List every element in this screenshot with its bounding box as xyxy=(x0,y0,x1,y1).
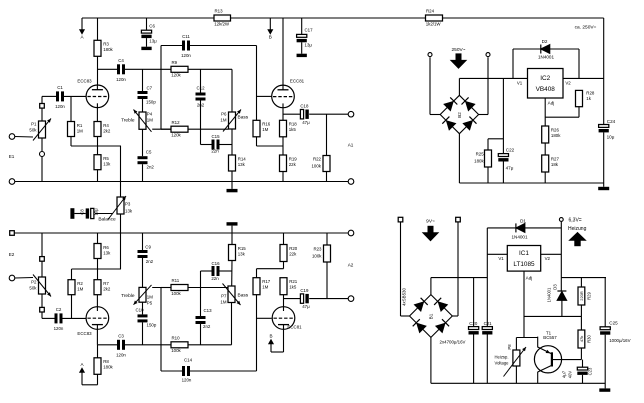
wire base to C23 xyxy=(582,360,584,368)
svg-text:1M: 1M xyxy=(77,128,83,133)
svg-text:C3: C3 xyxy=(118,334,124,339)
terminal A1 hot xyxy=(348,111,354,117)
potentiometer P1 xyxy=(33,119,51,141)
capacitor C19 xyxy=(300,288,310,309)
wire R14 to bus xyxy=(231,171,233,182)
svg-text:10μ: 10μ xyxy=(94,208,99,216)
wire R27 to psu gnd bus xyxy=(544,172,546,183)
svg-text:120k: 120k xyxy=(171,133,181,138)
svg-text:C24: C24 xyxy=(607,119,616,124)
svg-text:Adj: Adj xyxy=(548,101,555,106)
terminal E1 gnd xyxy=(9,179,15,185)
wire R20-R21 xyxy=(283,262,285,269)
svg-text:P5: P5 xyxy=(147,301,153,306)
svg-text:220R: 220R xyxy=(579,291,584,301)
wire C10 to P5 xyxy=(142,302,144,315)
wire IC1 adj xyxy=(523,271,525,337)
wire R3 to ECC83 plate, C4 tap xyxy=(98,56,118,85)
svg-text:13k: 13k xyxy=(103,250,111,255)
svg-text:100k: 100k xyxy=(312,254,322,259)
capacitor C21 xyxy=(482,327,492,330)
wire ECC81 lower plate to arrow B xyxy=(271,329,284,352)
wire cathode node to balance xyxy=(120,146,122,197)
wire D3 legs xyxy=(560,278,563,317)
svg-text:150p: 150p xyxy=(146,100,156,105)
wire C14 drop xyxy=(161,288,171,372)
svg-text:R28: R28 xyxy=(586,91,595,96)
wire wiper to C8 xyxy=(95,213,113,215)
svg-text:C19: C19 xyxy=(300,288,309,293)
svg-text:R11: R11 xyxy=(172,278,180,283)
wire bus to R3 xyxy=(97,18,99,40)
wire ECC81 cathode node xyxy=(283,108,300,121)
svg-text:4μ7: 4μ7 xyxy=(562,370,567,378)
potentiometer P4 xyxy=(134,110,152,132)
capacitor C22 xyxy=(498,154,508,157)
resistor R30 xyxy=(578,330,585,348)
resistor R17 xyxy=(253,278,271,295)
transformer arrow 9V input xyxy=(423,226,438,241)
svg-text:100k: 100k xyxy=(171,348,181,353)
wire node lower xyxy=(72,259,122,270)
wire P4 to C5 xyxy=(142,129,144,156)
wire C24 to gnd xyxy=(603,132,605,186)
wire 9V right to bridge xyxy=(452,222,458,316)
capacitor C25 xyxy=(600,327,610,330)
wire 9V left to bridge xyxy=(401,222,410,316)
potentiometer P6 xyxy=(223,110,241,132)
svg-text:R20: R20 xyxy=(289,246,298,251)
svg-text:2n2: 2n2 xyxy=(203,324,211,329)
tube U1 ECC83 upper xyxy=(86,85,109,108)
capacitor C13 xyxy=(196,316,206,324)
svg-text:R3: R3 xyxy=(103,42,109,47)
terminal 250V AC left xyxy=(428,53,432,57)
svg-text:50k: 50k xyxy=(29,128,37,133)
wire bus to C17 xyxy=(301,18,303,34)
supply arrow node B lower xyxy=(269,334,273,352)
wire AC left to bridge xyxy=(430,57,440,114)
svg-text:D3: D3 xyxy=(553,284,558,290)
wire R29 legs xyxy=(580,278,582,317)
resistor R24 xyxy=(426,9,443,27)
wire bus to ground upper xyxy=(231,182,233,189)
ground psu1 xyxy=(598,187,609,190)
wire bridge+ to C20 C21 xyxy=(431,278,487,295)
svg-text:1M: 1M xyxy=(147,295,153,300)
svg-text:1M: 1M xyxy=(262,285,268,290)
wire C11 drop xyxy=(161,46,182,130)
svg-text:B1: B1 xyxy=(428,313,433,319)
svg-text:P2: P2 xyxy=(31,280,37,285)
svg-text:2k2: 2k2 xyxy=(103,128,111,133)
resistor R18 xyxy=(280,120,298,137)
ground below C6 xyxy=(141,47,151,50)
wire R5 to bus xyxy=(97,170,99,182)
svg-text:120n: 120n xyxy=(54,326,64,331)
svg-text:E1: E1 xyxy=(9,154,15,159)
wire R15 to P7 xyxy=(231,261,233,287)
svg-text:Voltage: Voltage xyxy=(495,360,510,365)
wire P5 wiper to R11 xyxy=(152,287,171,289)
svg-text:BC557: BC557 xyxy=(543,335,557,340)
wire 250V rail right xyxy=(603,18,605,125)
wire C16 to R15 node xyxy=(220,270,233,272)
resistor R10 xyxy=(171,336,188,354)
wire bridge+ to IC2 xyxy=(459,78,527,95)
wire C21 to gnd bus xyxy=(486,335,488,384)
svg-text:22n: 22n xyxy=(211,149,219,154)
resistor R13 xyxy=(214,9,231,27)
svg-text:ECC81: ECC81 xyxy=(287,325,302,330)
svg-text:C22: C22 xyxy=(506,147,515,152)
wire emitter row xyxy=(516,337,537,339)
wire C17 to ground xyxy=(301,42,303,53)
wire C13 to plate wire xyxy=(200,324,202,345)
capacitor C23 xyxy=(577,367,587,370)
wire P8 top xyxy=(515,338,517,351)
svg-text:C21: C21 xyxy=(484,321,493,326)
wire P6 to R14 xyxy=(231,129,233,155)
wire R22 to bus xyxy=(326,172,328,182)
wire C7 to P4 xyxy=(142,99,144,112)
svg-text:Heizung: Heizung xyxy=(568,226,587,232)
wire C2 to grid ECC83 lower xyxy=(63,317,87,319)
capacitor C10 xyxy=(138,314,148,322)
svg-text:C4: C4 xyxy=(118,58,124,63)
terminal E2 in xyxy=(9,275,15,281)
svg-text:1M: 1M xyxy=(220,300,226,305)
wire D2 left leg xyxy=(513,49,541,78)
resistor R28 xyxy=(576,90,583,106)
capacitor C17 xyxy=(297,28,314,48)
svg-text:13μ: 13μ xyxy=(305,43,313,48)
svg-text:1M: 1M xyxy=(220,118,226,123)
resistor R19 xyxy=(280,155,298,172)
wire R26-R27 xyxy=(544,143,546,155)
wire C3 to tone stack lower xyxy=(125,344,171,346)
svg-text:50k: 50k xyxy=(29,286,37,291)
wire D1 right leg xyxy=(525,227,561,229)
svg-text:10μ: 10μ xyxy=(607,135,615,140)
resistor R12 xyxy=(171,120,188,138)
wire E2 to P2 wiper xyxy=(15,277,33,280)
svg-text:V1: V1 xyxy=(498,256,504,261)
wire R9 to bass pot xyxy=(188,69,232,112)
svg-text:R4: R4 xyxy=(103,123,109,128)
wire C21 leg xyxy=(486,228,488,327)
capacitor C11 xyxy=(181,34,191,58)
svg-text:R10: R10 xyxy=(172,336,181,341)
svg-text:13k: 13k xyxy=(238,162,246,167)
wire bus to R15 xyxy=(231,233,233,245)
wire C5 to bus xyxy=(142,164,144,181)
wire upper ground bus xyxy=(15,181,348,183)
svg-text:180k: 180k xyxy=(474,159,484,164)
resistor R20 xyxy=(280,245,298,262)
wire T1 base xyxy=(553,359,581,361)
wire R19 to bus xyxy=(282,172,284,182)
svg-text:C7: C7 xyxy=(147,86,153,91)
diode D3 xyxy=(557,290,566,292)
svg-text:180k: 180k xyxy=(103,47,113,52)
resistor R1 xyxy=(68,122,84,137)
svg-text:Balance: Balance xyxy=(98,217,116,223)
svg-text:120k: 120k xyxy=(171,73,181,78)
svg-text:R25: R25 xyxy=(476,152,485,157)
terminal P2 bottom connector xyxy=(40,307,45,312)
svg-text:IC2: IC2 xyxy=(540,75,550,82)
svg-text:1N4001: 1N4001 xyxy=(511,235,528,240)
svg-text:120n: 120n xyxy=(55,104,65,109)
svg-text:P8: P8 xyxy=(507,344,512,350)
potentiometer P3 xyxy=(117,197,124,214)
wire top supply bus segment 2 xyxy=(231,17,426,19)
wire ECC83 cathode to R4 xyxy=(96,108,98,122)
svg-text:250V~: 250V~ xyxy=(451,47,465,53)
ground upper channel xyxy=(227,189,238,192)
svg-text:R5: R5 xyxy=(103,156,109,161)
wire C12 to C15 xyxy=(201,101,212,145)
wire connector to P1 xyxy=(41,108,43,121)
wire bus to ECC81 plate xyxy=(282,18,284,85)
wire C25 leg xyxy=(604,278,606,327)
supply arrow node A lower xyxy=(80,362,85,385)
svg-text:1N4001: 1N4001 xyxy=(547,287,552,302)
wire C25 to gnd xyxy=(604,335,606,389)
svg-text:R22: R22 xyxy=(313,157,322,162)
wire R8 to arrow A xyxy=(82,374,98,385)
svg-text:C5: C5 xyxy=(146,150,152,155)
resistor R14 xyxy=(229,155,247,171)
wire R28 to adj xyxy=(545,107,579,118)
terminal P1 top connector xyxy=(40,104,45,109)
svg-text:V2: V2 xyxy=(565,81,571,86)
svg-text:R17: R17 xyxy=(262,279,271,284)
svg-text:2k2: 2k2 xyxy=(103,287,111,292)
tube U2 ECC81 upper xyxy=(272,85,295,108)
wire plate node to R8 xyxy=(97,345,99,358)
wire cathode junction xyxy=(71,137,121,155)
supply arrow node B upper xyxy=(268,18,272,40)
wire P1 to connector xyxy=(41,138,43,151)
svg-text:IC1: IC1 xyxy=(519,250,529,257)
wire R12 to bass pot bottom xyxy=(188,128,229,130)
svg-text:R19: R19 xyxy=(289,156,298,161)
diode D2 xyxy=(541,45,550,54)
wire C14 to grid ECC81 lower xyxy=(161,295,272,371)
svg-text:180k: 180k xyxy=(103,365,113,370)
svg-text:LT1085: LT1085 xyxy=(513,261,535,268)
wire T1 collector xyxy=(537,372,539,384)
wire C20 to gnd bus xyxy=(473,335,475,384)
svg-text:120n: 120n xyxy=(181,53,191,58)
svg-text:V1: V1 xyxy=(517,81,523,86)
svg-text:R27: R27 xyxy=(551,156,560,161)
terminal A2 hot xyxy=(348,296,354,302)
svg-text:R7: R7 xyxy=(103,281,109,286)
wire to C10 xyxy=(142,322,144,344)
resistor R4 xyxy=(94,122,111,137)
wire C20 leg xyxy=(473,278,475,327)
wire to C13 xyxy=(201,271,212,316)
resistor R9 xyxy=(171,60,188,78)
tube U4 ECC81 lower xyxy=(272,307,295,330)
svg-text:R15: R15 xyxy=(238,246,247,251)
svg-text:13k: 13k xyxy=(125,209,133,214)
svg-text:1M: 1M xyxy=(147,118,153,123)
wire C23 to gnd bus xyxy=(582,375,584,383)
capacitor C14 xyxy=(182,366,190,376)
svg-text:ECC81: ECC81 xyxy=(290,79,305,84)
svg-text:2n2: 2n2 xyxy=(147,165,155,170)
wire R2 to node xyxy=(71,269,73,280)
wire C18 to output xyxy=(309,114,348,155)
IC IC2 xyxy=(528,69,564,99)
wire bus to R6 xyxy=(97,233,99,244)
wire to C7 xyxy=(142,69,144,91)
wire D1 left leg xyxy=(487,227,516,229)
capacitor C7 xyxy=(138,91,148,99)
wire C9 to P5 xyxy=(142,258,144,287)
wire connector to C2 xyxy=(42,312,55,318)
terminal 9V AC left xyxy=(398,217,403,222)
svg-text:ca. 250V=: ca. 250V= xyxy=(575,25,597,31)
wire P4 wiper to R12 xyxy=(152,128,171,130)
wire C22 branch xyxy=(488,78,503,153)
wire C6 to ground xyxy=(146,38,148,47)
svg-text:13k: 13k xyxy=(238,251,246,256)
transformer arrow 250V input xyxy=(451,53,466,68)
wire adj row xyxy=(524,315,581,317)
capacitor C16 xyxy=(212,266,220,276)
bridge rectifier B1 xyxy=(410,295,453,338)
svg-text:B: B xyxy=(269,35,272,40)
svg-text:9V~: 9V~ xyxy=(426,218,435,224)
svg-text:P7: P7 xyxy=(221,294,227,299)
svg-text:Heizsp.: Heizsp. xyxy=(495,354,509,359)
potentiometer P5 xyxy=(134,285,152,305)
wire C1 to ECC83 grid xyxy=(64,95,86,97)
svg-text:1k: 1k xyxy=(586,96,591,101)
svg-text:1k2/1W: 1k2/1W xyxy=(426,21,442,26)
terminal P1 bottom connector xyxy=(40,152,45,157)
svg-text:B: B xyxy=(269,334,272,339)
wire IC2 out xyxy=(563,77,604,79)
potentiometer P2 xyxy=(33,275,51,297)
wire P2 to connector2 xyxy=(41,294,43,307)
svg-text:C2: C2 xyxy=(56,307,62,312)
svg-text:180k: 180k xyxy=(551,133,561,138)
svg-text:40V: 40V xyxy=(568,371,573,379)
terminal 6.3V out xyxy=(559,218,563,222)
wire connector to P2 xyxy=(41,261,43,277)
capacitor C24 xyxy=(599,125,609,128)
wire balance to lower cathode node xyxy=(120,214,122,269)
wire R1 to cathode node xyxy=(70,137,72,147)
svg-text:2x4700μ/16V: 2x4700μ/16V xyxy=(440,339,466,344)
svg-text:R1: R1 xyxy=(77,123,83,128)
transformer arrow 6.3V output xyxy=(570,233,586,247)
svg-text:Bass: Bass xyxy=(238,115,249,121)
svg-text:6,3V=: 6,3V= xyxy=(569,218,582,224)
potentiometer P8 xyxy=(513,350,520,366)
svg-text:22n: 22n xyxy=(211,276,219,281)
IC IC1 xyxy=(507,246,540,272)
svg-text:18k: 18k xyxy=(551,162,559,167)
svg-text:1N4001: 1N4001 xyxy=(538,55,555,60)
wire IC1 V2 xyxy=(541,253,562,255)
supply arrow node A upper xyxy=(80,18,85,40)
svg-text:120n: 120n xyxy=(116,77,126,82)
terminal A2 gnd xyxy=(348,230,354,236)
capacitor C9 xyxy=(138,250,148,258)
capacitor C8 xyxy=(91,208,94,218)
svg-text:R29: R29 xyxy=(587,291,592,299)
svg-text:E2: E2 xyxy=(9,252,15,257)
svg-text:R14: R14 xyxy=(238,156,247,161)
svg-text:C20: C20 xyxy=(469,321,478,326)
capacitor C15 xyxy=(212,140,220,150)
ground at C8 xyxy=(70,208,74,219)
svg-text:R16: R16 xyxy=(262,122,271,127)
svg-text:47μ: 47μ xyxy=(506,166,514,171)
resistor R5 xyxy=(94,155,111,170)
svg-text:22k: 22k xyxy=(289,251,297,256)
wire R21 to cathode node xyxy=(284,295,301,307)
svg-text:C12: C12 xyxy=(196,85,205,90)
resistor R16 xyxy=(253,120,271,137)
capacitor C12 xyxy=(196,85,206,107)
wire bus to R20 xyxy=(283,233,285,245)
terminal 9V AC right xyxy=(456,217,461,222)
capacitor C3 xyxy=(116,334,126,358)
svg-text:R9: R9 xyxy=(172,60,178,65)
svg-text:C9: C9 xyxy=(145,245,151,250)
svg-text:P3: P3 xyxy=(125,202,131,207)
svg-text:1k5: 1k5 xyxy=(289,285,297,290)
wire R30 legs xyxy=(580,316,582,359)
terminal 250V AC right xyxy=(486,53,490,57)
svg-text:C11: C11 xyxy=(182,34,190,39)
resistor R11 xyxy=(171,278,188,296)
svg-text:A1: A1 xyxy=(348,143,354,148)
svg-text:47k: 47k xyxy=(579,336,584,342)
svg-text:R18: R18 xyxy=(289,122,298,127)
svg-text:C15: C15 xyxy=(211,134,220,139)
wire C1 to P1 top xyxy=(42,96,56,103)
svg-text:C25: C25 xyxy=(609,321,618,326)
svg-text:VB408: VB408 xyxy=(536,86,556,93)
terminal P2 top connector xyxy=(40,257,45,262)
wire top supply bus segment 1 xyxy=(82,17,214,19)
resistor R23 xyxy=(324,245,331,262)
svg-text:R21: R21 xyxy=(289,279,298,284)
svg-text:12k/2W: 12k/2W xyxy=(214,21,230,26)
wire 6.3V rail xyxy=(561,222,606,278)
svg-text:D1: D1 xyxy=(520,218,526,223)
wire IC2 adj xyxy=(544,98,546,126)
wire D2 right leg xyxy=(550,49,579,78)
wire R17 to divider xyxy=(257,269,284,278)
capacitor C5 xyxy=(138,156,148,164)
svg-text:C18: C18 xyxy=(300,104,309,109)
resistor R25 xyxy=(485,150,492,167)
wire C8 to ground wall xyxy=(74,213,85,215)
svg-text:P1: P1 xyxy=(31,122,37,127)
tube U3 ECC83 lower xyxy=(86,307,109,330)
transistor T1 BC557 xyxy=(534,346,561,373)
